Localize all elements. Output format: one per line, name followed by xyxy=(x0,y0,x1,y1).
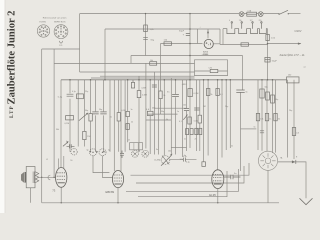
svg-text:a1: a1 xyxy=(304,67,306,69)
svg-text:B250: B250 xyxy=(203,51,209,53)
wire comb217 xyxy=(217,80,219,170)
tube V2 EBF89 xyxy=(112,171,123,188)
wire right v1 xyxy=(287,80,289,158)
wire det row xyxy=(171,147,186,149)
wire nested4 xyxy=(138,171,227,197)
resistor x258 xyxy=(256,113,259,120)
wire comb196 xyxy=(196,80,198,151)
wire H63 xyxy=(54,62,194,64)
svg-text:0,2M: 0,2M xyxy=(194,93,199,95)
resistor on V1 low xyxy=(83,131,86,139)
resistor x127 upper xyxy=(126,111,129,116)
svg-text:110: 110 xyxy=(239,20,242,22)
tuning pot arrow xyxy=(161,156,171,166)
wire comb103 xyxy=(103,80,105,152)
capacitor C electrolytic on V4 xyxy=(186,33,190,35)
resistor stub x133 xyxy=(132,80,134,83)
wire mains lead xyxy=(268,43,301,45)
wire comb186 xyxy=(186,80,188,151)
wire to ground xyxy=(278,162,306,198)
wire speaker feed2b xyxy=(275,80,277,153)
rectifier B250 xyxy=(204,39,213,48)
svg-text:EBF89 EL95: EBF89 EL95 xyxy=(54,22,66,24)
capacitor x186 xyxy=(184,109,189,111)
wire ladder2 xyxy=(91,77,195,79)
svg-text:EL95: EL95 xyxy=(209,193,216,197)
resistor x139 xyxy=(137,91,141,98)
wire tube2 cathode xyxy=(117,188,119,203)
capacitor tube2 grid xyxy=(120,151,124,159)
tube V1 ECH81 xyxy=(56,168,67,188)
svg-text:1n: 1n xyxy=(131,109,133,111)
wire comb110 xyxy=(109,80,111,152)
resistor x217 below bus xyxy=(216,89,219,96)
wire H55 xyxy=(131,55,243,57)
resistor x199 xyxy=(198,115,202,123)
wire rect top lead xyxy=(207,29,209,38)
svg-text:Zauberflöte 2/57 – 4L: Zauberflöte 2/57 – 4L xyxy=(280,53,306,57)
speaker connector xyxy=(258,151,277,170)
wire left main vertical V1 xyxy=(79,14,81,72)
wire ladder1 xyxy=(100,75,195,77)
svg-text:460: 460 xyxy=(152,108,155,110)
svg-text:5n: 5n xyxy=(254,127,256,129)
svg-text:0,1M: 0,1M xyxy=(65,123,70,125)
wire nested1 xyxy=(131,163,250,175)
cap pair x196 xyxy=(195,128,198,134)
svg-text:2k: 2k xyxy=(163,95,165,97)
svg-text:LTP: LTP xyxy=(9,105,15,118)
socket S1 xyxy=(37,25,49,37)
coil box xyxy=(130,143,143,150)
wire H72 xyxy=(80,71,195,73)
resistor x275 xyxy=(274,113,277,120)
capacitor on V240 xyxy=(236,90,244,92)
wire comb139 xyxy=(138,76,140,151)
wire speaker feed2 xyxy=(272,80,274,153)
wire bottom bus xyxy=(42,202,279,204)
wire top rail B+ xyxy=(80,13,279,15)
trimmer 2 xyxy=(142,150,149,157)
svg-text:+85V: +85V xyxy=(182,84,188,86)
wire comb145 xyxy=(145,63,147,148)
svg-text:12-498p: 12-498p xyxy=(154,160,161,162)
wire tube1 cathode xyxy=(60,187,62,203)
svg-text:0,1: 0,1 xyxy=(220,94,223,96)
svg-text:EBF89: EBF89 xyxy=(106,190,115,194)
trimmer 1 xyxy=(132,150,139,157)
wire comb121 xyxy=(120,80,122,171)
wire antenna to tube1 xyxy=(39,176,56,178)
svg-text:10k: 10k xyxy=(150,60,153,62)
svg-text:Zauberflöte Junior 2: Zauberflöte Junior 2 xyxy=(7,11,18,105)
svg-text:73: 73 xyxy=(52,189,56,193)
resistor on H63 xyxy=(150,62,157,65)
wire comb90 xyxy=(90,80,92,152)
resistor on V5 xyxy=(266,34,269,40)
wire comb118 xyxy=(118,80,120,152)
svg-text:0,3M: 0,3M xyxy=(142,88,147,90)
wire cross 128 xyxy=(241,128,257,130)
svg-text:0,3: 0,3 xyxy=(296,133,299,135)
wire comb171 xyxy=(170,78,172,155)
wire comb150 xyxy=(149,80,151,154)
mains arrowhead xyxy=(298,43,301,45)
capacitor x196 xyxy=(194,108,199,110)
svg-text:3k: 3k xyxy=(278,119,280,121)
wire loop box xyxy=(195,60,228,76)
wire comb226 xyxy=(225,80,227,150)
wire H49 xyxy=(42,48,80,50)
wire speaker feed0 xyxy=(257,80,259,150)
trimmer c1 xyxy=(71,149,77,155)
wire comb182 xyxy=(182,80,184,157)
wire loop box leads xyxy=(195,70,228,72)
svg-text:5k: 5k xyxy=(211,94,213,96)
tube V3 EL95 xyxy=(212,170,224,189)
svg-text:2n: 2n xyxy=(184,139,186,141)
resistor R on V3 xyxy=(144,25,148,32)
trimmer left a xyxy=(90,149,97,156)
wire comb84 xyxy=(84,80,86,147)
wire V5 xyxy=(267,29,269,80)
wire top rail right of switch xyxy=(289,13,301,15)
capacitor x103 xyxy=(100,112,106,114)
resistor x118 xyxy=(117,113,120,121)
svg-text:3n: 3n xyxy=(156,149,158,151)
svg-text:5p: 5p xyxy=(87,150,89,152)
box on comb203 xyxy=(202,162,206,167)
wire V0 xyxy=(41,49,43,203)
capacitor electrolytic x262 xyxy=(260,89,264,98)
tuning pot dashed circle xyxy=(161,156,170,165)
potentiometer arrow xyxy=(79,113,88,120)
wire heater xyxy=(220,44,268,46)
resistor x90 xyxy=(89,114,92,121)
wire comb208 xyxy=(207,80,209,156)
resistor x208 below bus xyxy=(206,89,210,96)
svg-text:174: 174 xyxy=(59,45,62,47)
resistor x127 lower xyxy=(126,124,129,130)
wire comb78 xyxy=(77,80,79,147)
wire V242 xyxy=(242,56,244,91)
svg-text:50p: 50p xyxy=(99,109,102,111)
wire link131 xyxy=(130,56,132,64)
capacitor tuner out xyxy=(183,158,185,162)
capacitor x154 xyxy=(152,85,157,87)
wire comb230 xyxy=(229,80,231,148)
capacitor low 5n xyxy=(67,144,75,148)
svg-text:1n: 1n xyxy=(177,111,179,113)
resistor on heater line xyxy=(241,43,249,46)
wire V4 xyxy=(189,14,191,80)
wire nested2 xyxy=(136,166,244,183)
wire avc line1 xyxy=(154,107,186,109)
capacitor x175 xyxy=(172,95,179,97)
wire comb154 xyxy=(153,72,155,155)
phono arrow xyxy=(292,160,295,163)
capacitor electrolytic x267 xyxy=(266,92,270,100)
svg-text:0,1: 0,1 xyxy=(179,121,182,123)
wire loop right xyxy=(219,29,221,45)
svg-text:30p: 30p xyxy=(85,110,88,112)
resistor inside loop box xyxy=(210,69,218,72)
wire trimmer2 to tube2 xyxy=(103,156,113,178)
lamp 2 xyxy=(258,12,263,17)
svg-text:260: 260 xyxy=(288,75,291,77)
capacitor on comb70 xyxy=(67,94,74,96)
box x150 xyxy=(147,111,153,115)
wire V4 lower xyxy=(189,80,191,148)
capacitor at tube3 xyxy=(224,175,241,179)
socket S2 xyxy=(54,25,68,43)
wire rect to loop xyxy=(214,43,221,45)
wire comb158 xyxy=(158,80,160,155)
wire comb113 xyxy=(113,80,115,171)
svg-text:0: 0 xyxy=(229,20,230,22)
capacitor x262 low xyxy=(260,131,264,133)
potentiometer arrow low xyxy=(63,142,68,146)
resistor x190 below bus xyxy=(188,89,192,97)
resistor x294 xyxy=(292,128,295,136)
wire speaker bottom xyxy=(267,170,269,202)
wire comb70 xyxy=(69,80,71,152)
svg-text:C100: C100 xyxy=(203,54,209,56)
wire speaker feed1 xyxy=(261,80,263,151)
svg-text:5p: 5p xyxy=(108,150,110,152)
svg-text:5n: 5n xyxy=(231,146,233,148)
wire V3 xyxy=(145,14,147,56)
resistor x189 xyxy=(188,117,192,124)
cap pair x186 xyxy=(186,129,189,135)
grid cap tube1 xyxy=(48,175,50,180)
svg-text:10k: 10k xyxy=(260,119,263,121)
svg-text:10k: 10k xyxy=(183,105,186,107)
arrow up on rectifier lead xyxy=(207,30,209,33)
svg-text:4n: 4n xyxy=(184,155,186,157)
wire comb127 xyxy=(127,80,129,143)
wire comb203 xyxy=(203,80,205,162)
svg-text:Röhrensockel von unten: Röhrensockel von unten xyxy=(43,16,67,19)
svg-text:≈220V: ≈220V xyxy=(294,29,302,33)
wire V2 xyxy=(104,29,106,80)
svg-text:0,5M: 0,5M xyxy=(122,110,127,112)
box on bus right xyxy=(287,77,299,83)
capacitor x95 xyxy=(92,112,98,114)
svg-text:2n: 2n xyxy=(195,139,197,141)
main bus xyxy=(61,79,287,81)
wire comb199 xyxy=(199,80,201,151)
svg-text:5,9k: 5,9k xyxy=(209,67,213,69)
transformer primary winding xyxy=(223,29,268,34)
wire comb164 xyxy=(163,80,165,156)
wire comb175 xyxy=(175,80,177,155)
wire nested3 xyxy=(126,169,239,191)
svg-text:127: 127 xyxy=(250,20,253,22)
fuse xyxy=(247,12,257,16)
resistor x267 xyxy=(265,113,268,120)
svg-text:10k: 10k xyxy=(168,151,171,153)
svg-text:0,1µ: 0,1µ xyxy=(58,97,63,99)
svg-text:5n: 5n xyxy=(246,92,248,94)
svg-text:L1: L1 xyxy=(46,159,48,161)
svg-text:0,3M: 0,3M xyxy=(142,95,147,97)
svg-text:50µF: 50µF xyxy=(179,31,185,33)
svg-text:0,5M: 0,5M xyxy=(194,121,199,123)
wire comb61 xyxy=(60,80,62,168)
wire speaker feed1b xyxy=(266,80,268,152)
pot arrow det xyxy=(183,116,187,120)
wire V54 xyxy=(53,49,55,177)
svg-text:30k: 30k xyxy=(56,129,59,131)
wire comb222 xyxy=(221,80,223,158)
capacitor on V3 xyxy=(143,37,148,39)
wire avc line3 xyxy=(146,119,171,121)
switch xyxy=(279,10,288,14)
svg-text:1k: 1k xyxy=(269,119,271,121)
svg-text:1M: 1M xyxy=(203,106,206,108)
svg-text:2k: 2k xyxy=(131,122,133,124)
box comp x80 xyxy=(77,94,84,99)
capacitor electrolytic on V5 xyxy=(265,57,270,62)
antenna ferrite rod xyxy=(21,167,39,188)
wire comb125 xyxy=(124,80,126,152)
capacitor electrolytic x272 xyxy=(271,95,275,103)
wire V240 xyxy=(240,92,242,171)
wire loop left xyxy=(197,29,199,44)
tiny labels xyxy=(40,9,306,197)
tuning second diagonal xyxy=(162,156,169,165)
wire avc line2 xyxy=(148,113,178,115)
svg-text:220: 220 xyxy=(259,20,262,22)
wire trimmer1 to tube2 xyxy=(93,156,109,173)
resistor left 0,1M xyxy=(66,116,74,120)
svg-text:ECH81: ECH81 xyxy=(40,22,47,24)
wire tube1 top feeds xyxy=(59,156,64,168)
transformer taps xyxy=(232,23,262,29)
wire right v2 xyxy=(293,80,295,159)
resistor on rect row xyxy=(164,42,172,46)
wire H29 xyxy=(105,28,220,30)
wire tube3 cathode xyxy=(217,189,219,203)
svg-text:50µF: 50µF xyxy=(272,60,278,62)
trimmer left b xyxy=(99,149,106,156)
svg-text:5k: 5k xyxy=(166,119,168,121)
lamp 1 xyxy=(239,12,244,17)
ground arrow xyxy=(300,198,313,204)
wire antenna down xyxy=(30,188,32,203)
wire winding end xyxy=(222,29,224,45)
wire tuner out xyxy=(170,159,197,161)
svg-text:30p: 30p xyxy=(161,111,164,113)
svg-text:1M: 1M xyxy=(87,136,90,138)
wire rect row xyxy=(161,44,203,115)
left page edge xyxy=(0,0,5,213)
wire comb95 xyxy=(95,80,97,152)
resistor x160 xyxy=(159,91,162,99)
